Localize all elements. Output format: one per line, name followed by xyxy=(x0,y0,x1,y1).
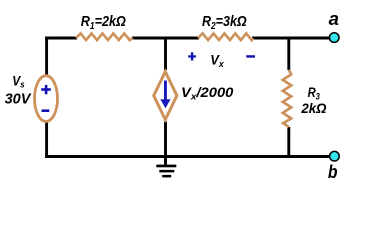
label R1=2k ohm xyxy=(81,12,126,31)
label Vs xyxy=(12,72,25,89)
wire middle vertical lower (dependent source to bottom rail) xyxy=(164,122,167,159)
svg-text:b: b xyxy=(328,161,338,183)
plus sign inside Vs xyxy=(41,85,51,94)
ground xyxy=(156,157,176,178)
resistor R2 xyxy=(198,33,253,40)
wire R3 vertical lower stub xyxy=(287,127,290,158)
label R2=3k ohm xyxy=(202,12,247,31)
terminal a xyxy=(329,33,339,43)
wire R3 vertical upper stub xyxy=(287,37,290,71)
svg-text:R2=3kΩ: R2=3kΩ xyxy=(202,12,247,31)
terminal b xyxy=(330,151,340,161)
label R3 value 2k ohm xyxy=(300,101,326,116)
minus sign inside Vs xyxy=(42,109,50,112)
wire left vertical lower (Vs bottom to bottom rail) xyxy=(45,122,48,158)
wire top right segment from R2 to terminal a xyxy=(252,37,331,40)
svg-text:2kΩ: 2kΩ xyxy=(300,101,326,116)
dependent current source Vx/2000 (diamond) xyxy=(154,72,177,120)
wire top-left horizontal segment xyxy=(45,37,77,40)
wire top middle segment between R1 and R2 xyxy=(132,37,199,40)
plus sign of Vx polarity xyxy=(188,52,196,60)
svg-text:30V: 30V xyxy=(5,92,32,108)
resistor R3 xyxy=(283,70,291,127)
arrow inside dependent source xyxy=(160,81,170,109)
voltage source Vs (independent, ellipse) xyxy=(35,76,58,122)
resistor R1 xyxy=(76,33,133,40)
wire bottom rail xyxy=(45,155,331,158)
label b xyxy=(328,161,338,183)
label Vx/2000 xyxy=(181,86,233,103)
wire middle vertical upper (top rail to dependent source) xyxy=(164,37,167,71)
label R3 xyxy=(308,85,320,102)
svg-text:a: a xyxy=(329,8,339,29)
wire left vertical upper (node to Vs top) xyxy=(45,37,48,76)
minus sign of Vx polarity xyxy=(246,55,255,58)
svg-text:R1=2kΩ: R1=2kΩ xyxy=(81,12,126,31)
svg-text:Vx/2000: Vx/2000 xyxy=(181,86,233,103)
label Vx xyxy=(210,52,224,69)
